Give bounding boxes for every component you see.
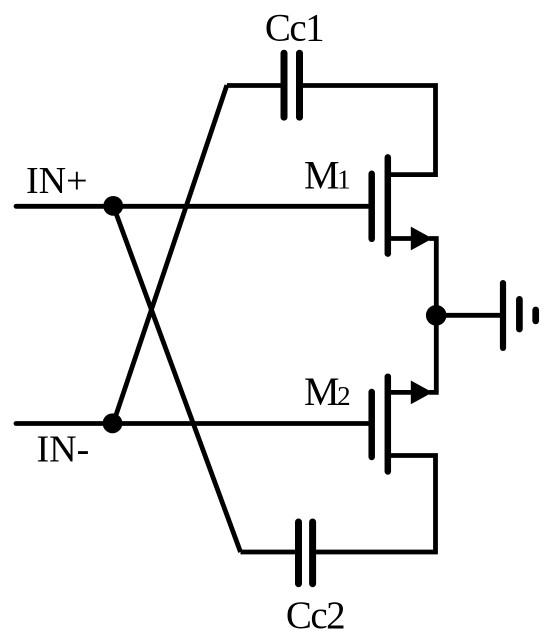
wire M2 drain lead over right rail down to Cc2 right lead [313,456,436,553]
svg-text:M2: M2 [304,369,351,414]
wire cross-couple from IN- node up to Cc1 left corner [113,85,227,423]
wire IN- input rail [16,421,371,426]
wire Cc1 left lead [227,83,284,88]
label IN+ [26,160,88,202]
wire output node to ground [436,313,503,318]
wire M1 source arrow [411,227,433,251]
wire M2 source lead [388,390,414,395]
wire Cc1 right lead over to right rail and down to M1 drain [300,86,436,175]
wire M1 source corner down to output node [429,239,436,316]
capacitor Cc1 [284,53,300,117]
wire output node down to M2 source corner [429,315,436,392]
label M1 [304,153,351,198]
svg-text:IN+: IN+ [26,160,88,202]
label Cc2 [286,594,344,637]
svg-text:IN-: IN- [37,429,90,471]
ground [503,283,536,348]
label Cc1 [265,7,323,50]
svg-text:Cc2: Cc2 [286,594,344,637]
wire M2 source arrow [411,381,433,405]
node IN+ junction dot [103,196,123,216]
node output junction dot [426,305,447,326]
wire M1 source lead [388,236,414,241]
node IN- junction dot [103,413,123,433]
label IN- [37,429,90,471]
wire IN+ input rail [16,204,371,209]
svg-text:M1: M1 [304,153,351,198]
transistor M1 [372,157,388,253]
wire Cc2 left lead [241,550,299,555]
wire cross-couple from IN+ node down to Cc2 left corner [113,206,240,552]
transistor M2 [372,377,388,472]
capacitor Cc2 [299,522,313,584]
svg-text:Cc1: Cc1 [265,7,323,50]
label M2 [304,369,351,414]
